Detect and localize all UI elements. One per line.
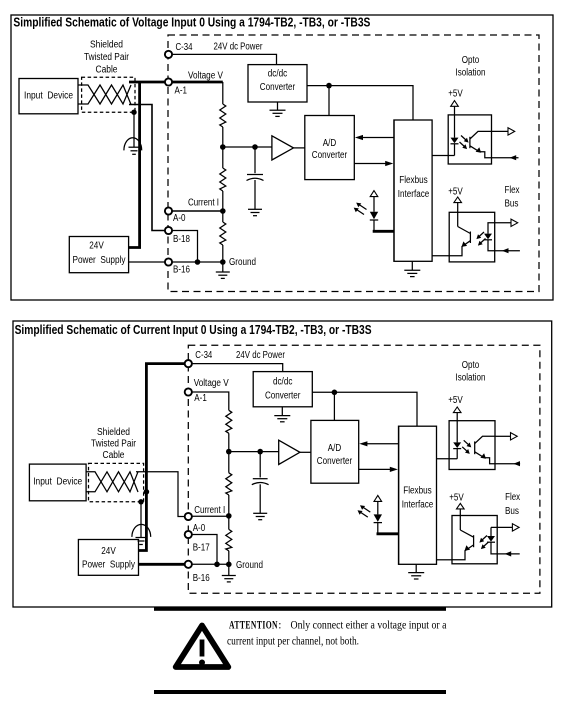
attention text [227,620,447,648]
dashed module boundary 2 [188,345,540,593]
outer frame schematic 2 [13,321,552,607]
terminal B-16 [165,258,172,265]
terminal C-34 [165,51,172,58]
wire: U1 collector output with open arrow [492,128,515,135]
wire: top conductor to terminal A-0 [136,472,185,517]
shield ground symbol 2 [136,538,147,545]
svg-text:dc/dc: dc/dc [273,376,293,387]
terminal B-18 [165,227,172,234]
A/D Converter box 1 [305,116,355,180]
optocoupler U3 phototransistor [475,436,495,463]
label Flex Bus 1 [505,185,520,210]
wire: B-16 to ground node s2 (thick) [192,563,229,565]
op-amp buffer 2 [279,440,300,464]
shield ground dome [124,138,142,151]
optocoupler U2 light arrows [476,232,485,246]
svg-text:current input per channel, not: current input per channel, not both. [227,636,359,648]
optocoupler U1 light arrows [460,136,469,150]
dashed module boundary 1 [168,35,539,292]
svg-text:Cable: Cable [103,450,125,461]
svg-text:Power Supply: Power Supply [82,559,135,570]
bottom rule bar [154,690,446,694]
svg-text:Bus: Bus [505,198,519,209]
wire: supply to terminal B-16 [129,261,166,263]
svg-text:Simplified Schematic of Curren: Simplified Schematic of Current Input 0 … [15,323,372,337]
svg-text:A-1: A-1 [194,393,207,404]
optocoupler U1 box [448,115,491,164]
top rule bar [154,607,446,611]
+5V arrow opto 1 [451,101,459,107]
optocoupler U2 phototransistor [449,203,470,256]
node Current I s2 [226,513,232,519]
wire: C-34 to dc/dc converter [172,54,276,64]
+5V arrow status LED [370,191,378,197]
resistor R5 [226,473,232,495]
A/D Converter box 2 [311,420,359,483]
node capacitor s2 [257,449,263,455]
svg-text:A-1: A-1 [175,86,188,97]
24V Power Supply box 2 [78,540,138,576]
optocoupler U4 light arrows [479,536,488,550]
svg-text:Voltage V: Voltage V [188,71,223,82]
svg-text:A-0: A-0 [193,523,206,534]
svg-text:Converter: Converter [260,82,296,93]
wire: node to op-amp [223,146,272,148]
svg-text:Isolation: Isolation [456,68,486,79]
shield drain wire 2 [140,502,142,538]
+5V arrow opto 2 [454,197,462,203]
label Opto Isolation 2 [456,360,486,384]
svg-text:Shielded: Shielded [97,427,130,438]
svg-text:Cable: Cable [96,64,118,75]
terminal A-1 s2 [185,388,192,395]
wire: Flexbus to U1 LED [432,155,454,157]
ground Flexbus 2 [408,564,424,579]
svg-text:Converter: Converter [312,150,348,161]
status LED 2 [374,502,382,534]
terminal B-16 s2 [185,561,192,568]
svg-text:Flex: Flex [505,492,520,503]
wire: supply to terminal B-16 (thick) [139,563,185,566]
optocoupler U1 LED [451,106,459,155]
node op-amp input [220,144,226,150]
svg-text:Opto: Opto [462,55,480,66]
svg-text:Input Device: Input Device [24,90,73,101]
svg-text:Only connect either a voltage: Only connect either a voltage input or a [291,620,447,632]
node ground [220,259,226,265]
terminal C-34 s2 [185,360,192,367]
svg-text:Converter: Converter [265,390,301,401]
svg-text:24V dc Power: 24V dc Power [214,42,264,53]
wire: A-0 to current node s2 [192,515,229,517]
24V Power Supply box 1 [69,237,128,273]
svg-text:Interface: Interface [402,499,434,510]
+5V arrow opto 3 [453,407,461,413]
status LED light arrows [354,203,367,215]
optocoupler U4 LED [487,527,497,554]
svg-text:Input Device: Input Device [33,476,82,487]
svg-text:Flex: Flex [505,185,520,196]
svg-text:C-34: C-34 [195,350,212,361]
wire: op-amp to A/D [294,147,305,149]
optocoupler U4 box [452,516,497,564]
+5V arrow status LED 2 [374,495,382,501]
wire: chain top [222,82,224,104]
svg-text:+5V: +5V [448,186,463,197]
node B-17 jumper [214,562,220,568]
terminal B-17 s2 [185,531,192,538]
warning triangle [176,626,229,668]
svg-text:ATTENTION: ATTENTION [229,620,278,632]
wire current node to R3 [222,211,224,222]
node B-18 jumper [195,259,201,265]
shield drain junction [131,110,136,115]
wire: op-amp to A/D s2 [300,451,311,453]
wire: U3 collector output with open arrow [495,433,517,440]
resistor R3 [220,222,226,245]
wire: U1 emitter output with arrow [492,155,519,160]
svg-text:Opto: Opto [462,360,480,371]
svg-text:+5V: +5V [449,493,464,504]
node dc/dc output s2 [332,390,338,396]
svg-text::: : [278,620,281,632]
svg-text:Interface: Interface [398,189,430,200]
wire: bottom conductor to terminal B-18 [129,105,165,231]
svg-text:24V dc Power: 24V dc Power [236,350,286,361]
svg-text:dc/dc: dc/dc [268,69,288,80]
optocoupler U4 phototransistor [452,509,474,560]
wire node to R2 [222,147,224,168]
node pair bottom conductor [144,489,150,495]
svg-text:Shielded: Shielded [90,39,123,50]
wire R1 to node [222,127,224,147]
twisted pair conductors 1 [78,85,131,105]
resistor R4 [226,410,232,433]
svg-text:Converter: Converter [317,456,353,467]
svg-text:+5V: +5V [448,395,463,406]
wire: node to A/D converter top [328,86,330,116]
wire R6 to ground node s2 [228,551,230,565]
shield drain wire [133,112,135,147]
svg-text:B-16: B-16 [193,573,210,584]
svg-text:B-16: B-16 [173,265,190,276]
wire: C-34 to dc/dc converter s2 [192,364,283,372]
Flexbus Interface box 1 [394,120,432,261]
wire: thick branch down to 24V supply [129,82,140,248]
svg-text:A/D: A/D [328,443,342,454]
svg-text:Power Supply: Power Supply [73,255,126,266]
terminal A-0 s2 [185,513,192,520]
status LED 2 light arrows [358,505,371,517]
dc/dc Converter box 1 [248,65,307,102]
wire R2 to current node [222,191,224,211]
terminal A-0 [165,207,172,214]
wire: C-34 to supply loop (thick) [139,364,185,551]
label Shielded Twisted Pair Cable 2 [91,427,137,461]
op-amp buffer 1 [272,136,294,160]
ground capacitor C1 [248,209,262,215]
svg-text:24V: 24V [89,240,104,251]
cable shield dashed box 1 [82,77,135,112]
node capacitor [252,144,258,150]
wire current node to R6 [228,516,230,530]
wire: A-1 to resistor chain s2 [192,392,229,410]
wire: U4 output with open arrow (thick) [491,524,519,531]
svg-text:Voltage V: Voltage V [194,378,229,389]
capacitor C1 [247,147,264,209]
svg-text:Twisted Pair: Twisted Pair [84,52,130,63]
wire R3 to ground node [222,245,224,262]
svg-text:+5V: +5V [448,89,463,100]
resistor R2 [220,168,226,191]
shield drain junction 2 [138,499,143,504]
optocoupler U3 light arrows [462,440,471,454]
svg-text:Ground: Ground [236,560,263,571]
label Flex Bus 2 [505,492,520,517]
node op-amp input s2 [226,449,232,455]
arrow A/D to Flexbus [354,161,393,166]
twisted pair conductors 2 [86,472,138,492]
optocoupler U2 box [449,212,495,262]
svg-text:Flexbus: Flexbus [399,175,428,186]
arrow Flexbus to A/D s2 [359,441,398,446]
shield ground dome 2 [132,524,151,537]
wire: top conductor to terminal A-1 (thick) [129,81,165,84]
ground symbol at ground node [216,262,230,278]
label Shielded Twisted Pair Cable 1 [84,39,130,75]
Input Device box 1 [19,79,78,114]
label Opto Isolation 1 [456,55,486,79]
arrow A/D to Flexbus s2 [359,467,398,472]
Flexbus Interface box 2 [399,426,437,564]
ground capacitor C2 [253,513,267,519]
svg-text:Ground: Ground [229,257,256,268]
wire: Flexbus to U2 emitter [432,255,449,257]
dc/dc Converter box 2 [253,372,312,407]
svg-text:Current I: Current I [194,505,225,516]
wire: A-1 to resistor chain (thick) [172,81,223,84]
wire: node to A/D top s2 [333,392,335,420]
svg-text:C-34: C-34 [176,42,193,53]
wire: U3 emitter output with arrow [495,461,520,466]
node Current I [220,208,226,214]
wire: B-16 to ground node [172,261,223,263]
svg-text:A-0: A-0 [173,213,186,224]
ground dc/dc 1 [270,102,286,116]
wire: A-0 to current node [172,210,223,212]
wire R5 to current node s2 [228,495,230,516]
ground Flexbus 1 [404,261,420,276]
resistor R1 [220,104,226,127]
cable shield dashed box 2 [89,463,144,501]
svg-text:Bus: Bus [505,506,519,517]
wire: Flexbus to U3 LED (thick) [437,458,458,460]
svg-text:Current I: Current I [188,198,219,209]
wire: node to op-amp s2 [229,451,279,453]
svg-text:B-17: B-17 [193,542,210,553]
+5V arrow opto 4 [457,503,465,509]
optocoupler U3 box [449,421,495,470]
resistor R6 [226,529,232,550]
arrow Flexbus to A/D [355,135,394,140]
wire: U2 output with open arrow [495,219,518,226]
svg-text:Simplified Schematic of Voltag: Simplified Schematic of Voltage Input 0 … [13,16,370,30]
wire: status LED 2 to Flexbus (thick) [377,532,399,535]
status LED [370,197,378,232]
wire: dc/dc output s2 [312,392,417,426]
capacitor C2 [252,452,269,513]
terminal A-1 [165,78,172,85]
svg-text:B-18: B-18 [173,234,190,245]
node ground s2 [226,562,232,568]
wire: U2 input with arrow [495,248,520,253]
svg-text:Isolation: Isolation [456,373,486,384]
wire: Flexbus to U4 emitter [437,559,453,561]
outer frame schematic 1 [11,15,553,300]
optocoupler U1 phototransistor [470,131,492,157]
node dc/dc output [326,83,332,89]
ground symbol at ground node s2 [222,564,236,582]
svg-text:Twisted Pair: Twisted Pair [91,439,137,450]
svg-text:A/D: A/D [323,138,337,149]
wire: dc/dc output [307,86,413,120]
svg-text:24V: 24V [101,546,116,557]
wire: status LED to Flexbus (thick) [373,230,394,233]
Input Device box 2 [29,464,86,501]
wire R4 to node s2 [228,433,230,451]
wire: B-17 jumper down to B-16 row [192,535,217,565]
optocoupler U2 LED [484,223,495,251]
wire: B-18 jumper down to B-16 row [172,231,197,263]
shield ground symbol [129,147,140,154]
ground dc/dc 2 [274,407,290,422]
wire node to R5 [228,452,230,473]
svg-text:Flexbus: Flexbus [403,485,432,496]
wire: U4 input with arrow [497,551,520,556]
optocoupler U3 LED [453,413,461,459]
